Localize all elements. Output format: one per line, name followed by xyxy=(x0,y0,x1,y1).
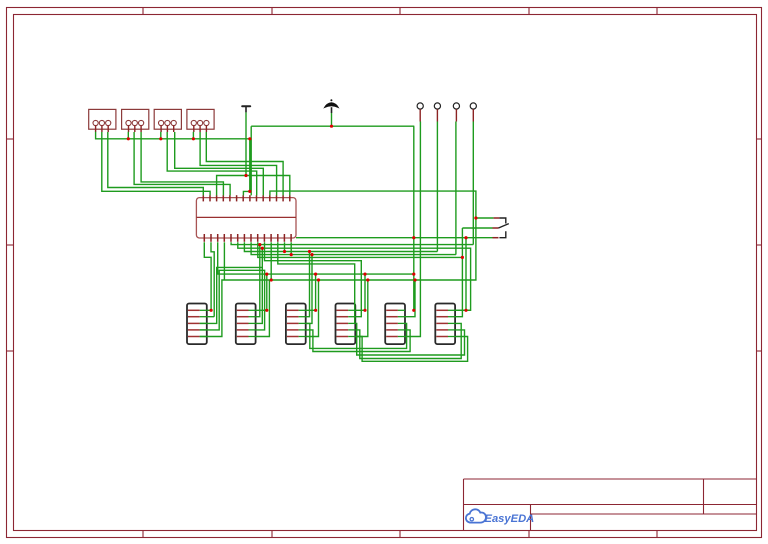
wire U1 p4 drop xyxy=(223,242,225,280)
wire U rail DS4-DS6 a xyxy=(355,323,464,355)
wire U1 p14 stub xyxy=(290,242,292,254)
wire U rail DS4-DS6 c xyxy=(355,337,467,362)
wire J4 pin1 drop xyxy=(192,132,194,139)
connector J3 xyxy=(154,109,181,132)
display DS4 xyxy=(336,304,356,345)
wire rail 267 DS1 pin3 xyxy=(200,267,263,323)
wire +5V net xyxy=(251,113,414,310)
wire DS4 pin1 up xyxy=(355,274,365,310)
VCC bar symbol xyxy=(242,106,250,112)
display DS3 xyxy=(286,304,306,345)
wire U1 p3 rail 274 xyxy=(218,242,414,274)
pin header P1 xyxy=(417,103,423,122)
wire rail B xyxy=(238,242,471,310)
wire U1 p13 stub xyxy=(284,242,286,251)
display DS1 xyxy=(187,304,207,345)
+5V arrow symbol xyxy=(324,99,338,113)
wire J2 pin1 drop xyxy=(127,132,129,139)
wire DS2 pin5 up xyxy=(256,280,270,337)
wire DS6 pin1 ext xyxy=(455,309,471,311)
wire J2 pin2 to U1 pin5 xyxy=(134,132,230,195)
wire U1 p2 to DS1 pin2 xyxy=(207,242,214,316)
connector J1 xyxy=(89,109,116,132)
wire J1 pin2 to U1 pin2 xyxy=(102,132,210,195)
wire DS4 pin5 up xyxy=(355,280,368,337)
wire J1 pin3 to U1 pin1 xyxy=(108,132,204,195)
title block xyxy=(464,479,757,531)
wire VCC rail pins 3-14 xyxy=(217,176,290,196)
wire rail D drop DS3 pin3 xyxy=(306,255,312,324)
wire rail C drop DS3 pin2 xyxy=(306,252,310,317)
wire P4 drop xyxy=(472,122,474,245)
wire DS5 pin2 up xyxy=(405,280,415,317)
wire J4 pin3 to U1 pin13 xyxy=(206,132,283,195)
wire U1 p1 to DS1 pin1 xyxy=(204,242,211,310)
pin header P4 xyxy=(470,103,476,122)
wire P3 drop xyxy=(455,122,457,255)
switch S1 pin bottom xyxy=(493,237,499,239)
pin header P2 xyxy=(434,103,440,122)
connector J4 xyxy=(187,109,214,132)
wire U rail DS3-DS5 b xyxy=(306,330,410,352)
wire J3 pin2 to U1 pin9 xyxy=(167,132,257,195)
switch S1 pin mid xyxy=(493,227,499,229)
wire rail C xyxy=(244,242,437,251)
wire rail G xyxy=(278,242,355,323)
wire DS3 pin5 up xyxy=(306,280,319,337)
wire U1 p11 drop xyxy=(270,242,272,280)
wire rail 270 DS1 pin4 xyxy=(200,270,265,330)
op-amp U1 (28-pin IC) xyxy=(196,195,296,242)
wire J3 pin1 drop xyxy=(160,132,162,139)
display DS2 xyxy=(236,304,256,345)
switch S1 body xyxy=(499,218,509,238)
switch S1 pin top xyxy=(493,217,499,219)
wire VCC stem xyxy=(245,112,247,175)
wire U1 pin11 long net xyxy=(200,191,476,336)
connector J2 xyxy=(122,109,149,132)
wire DS3 pin1 up xyxy=(306,274,316,310)
wire switch bottom to DS6 pin1 xyxy=(465,238,467,311)
wire switch bottom rail xyxy=(296,237,493,239)
wire rail F xyxy=(265,242,362,316)
wire rail D xyxy=(251,242,456,254)
pin header P3 xyxy=(453,103,459,122)
border ticks bottom xyxy=(143,531,657,538)
svg-text:EasyEDA: EasyEDA xyxy=(485,513,535,525)
wire DS2 pin1 up xyxy=(256,274,267,310)
wire bus J pins to VCC xyxy=(96,132,250,196)
wire J4 pin2 to U1 pin12 xyxy=(200,132,277,195)
wire U rail DS4-DS6 b xyxy=(355,323,461,358)
wire switch mid net xyxy=(455,228,492,317)
display DS6 xyxy=(435,304,455,345)
wire switch top feed xyxy=(476,217,494,219)
wire P2 drop xyxy=(436,122,438,252)
wire P1 drop xyxy=(405,122,420,337)
EasyEDA logo xyxy=(466,509,534,525)
wire rail B drop DS2 pin3 xyxy=(256,248,263,323)
wire J3 pin3 to U1 pin10 xyxy=(175,132,264,195)
wire rail A xyxy=(231,242,473,244)
border ticks right xyxy=(757,139,762,351)
junction dots xyxy=(127,125,478,312)
wire rail A drop DS2 pin2 xyxy=(256,245,260,317)
wire J2 pin3 to U1 pin4 xyxy=(141,132,223,195)
wire U rail DS3-DS5 a xyxy=(306,323,407,348)
display DS5 xyxy=(385,304,405,345)
border ticks top xyxy=(143,8,657,15)
border ticks left xyxy=(7,139,14,351)
wire rail E xyxy=(258,242,463,257)
